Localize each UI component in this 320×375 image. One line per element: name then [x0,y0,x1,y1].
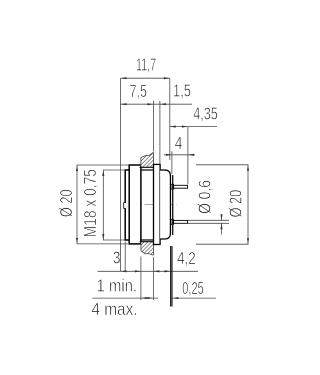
dim 4,35 [170,126,217,128]
svg-text:0,25: 0,25 [182,280,204,299]
11,7 arrows inside [121,77,127,79]
panel hatch top [141,152,154,167]
flange [129,165,141,244]
svg-text:1,5: 1,5 [173,82,191,101]
svg-text:Ø 20: Ø 20 [57,189,76,217]
dim text diameter 0,6 (pin) [196,180,215,214]
dim text 11,7 [136,56,156,75]
1min/4max arrows inside [141,297,147,299]
M18 sleeve front [124,170,129,240]
dim 4 [164,154,195,156]
dim 3 / 4,2 [98,270,199,272]
svg-text:7,5: 7,5 [129,82,147,102]
dim text 4,2 [177,249,195,268]
rear insulator dome [160,170,170,239]
dia20 left arrows [76,165,78,171]
top pin [171,184,188,189]
dia20 left [76,165,78,244]
dim text 1 min. (panel thickness min) [97,276,138,295]
svg-text:1 min.: 1 min. [97,276,138,295]
dia 0,6 [188,219,229,221]
dim text 7,5 [129,82,147,102]
7,5 arrows inside [121,103,127,105]
M18 arrows [102,170,104,176]
dim text diameter 20 (flange, left) [57,189,76,217]
washer ext bars [170,246,172,307]
dim text 3 [113,249,121,268]
dim text 0,25 (washer thickness) [182,280,204,299]
dim text 1,5 [173,82,191,101]
dim text 4 max. (panel thickness max) [91,300,137,319]
sleeve through panel hole [141,170,154,240]
4,35 arrows inside [170,126,176,128]
front reference extension line [120,78,122,271]
dim text diameter 20 (nut, right) [227,190,246,218]
dim text M18 x 0,75 (thread) [82,169,101,238]
nut [154,164,161,244]
svg-text:M18 x 0,75: M18 x 0,75 [82,169,101,238]
M18 [102,170,104,240]
panel hatch bottom [141,242,154,256]
dim 0,25 [172,297,216,299]
dim 11,7 [121,77,170,79]
dim text 4 [175,135,183,154]
3 inside arrows [121,270,127,272]
dim 7,5 + 1,5 [121,103,193,105]
centerline [130,204,177,206]
4 outside arrows [166,154,172,156]
svg-text:4: 4 [175,135,183,154]
1,5 right outside arrow [160,103,166,105]
arrows [76,77,249,299]
0,25 arrow [172,297,178,299]
dia20 right [247,165,249,244]
svg-text:Ø 0,6: Ø 0,6 [196,180,215,214]
thread notch [124,203,126,209]
svg-text:4,2: 4,2 [177,249,195,268]
bottom pin [171,220,188,225]
ext right of 11,7 / 4,35 [169,78,171,160]
svg-text:3: 3 [113,249,121,268]
dia20 right arrows [247,165,249,171]
dia 0,6 arrows outside [220,214,222,220]
dim text 4,35 [193,105,218,125]
dim 1min 4max [92,297,158,299]
svg-text:4,35: 4,35 [193,105,218,125]
svg-text:4 max.: 4 max. [91,300,137,319]
svg-text:Ø 20: Ø 20 [227,190,246,218]
4,2 arrows inside [153,270,159,272]
svg-text:11,7: 11,7 [136,56,156,75]
washer bar at dome end [172,175,174,235]
